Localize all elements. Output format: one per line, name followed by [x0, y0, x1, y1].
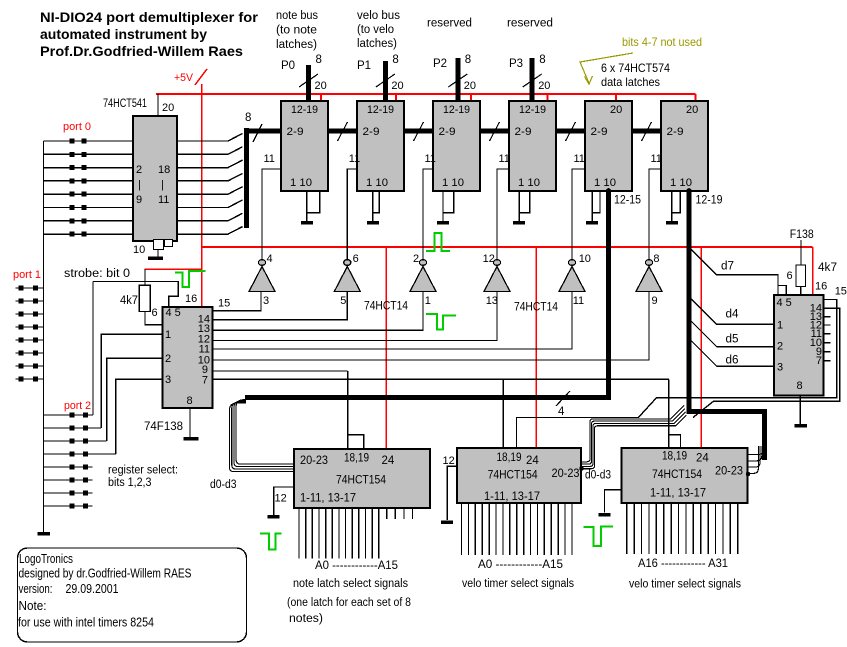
svg-text:4: 4 [267, 253, 273, 265]
resistor R1 4k7 pull-up [144, 269, 146, 285]
thick data bus into latch U2 [245, 129, 282, 134]
svg-text:bits 4-7 not used: bits 4-7 not used [622, 35, 702, 49]
wire: IC9 pin10 to inverter IC8f input [213, 292, 650, 361]
svg-text:11: 11 [425, 153, 436, 165]
svg-text:5: 5 [340, 295, 346, 307]
svg-text:1 10: 1 10 [290, 177, 312, 189]
IC12 output pin [564, 503, 566, 555]
U2 pins 1,10 to ground [307, 191, 320, 213]
svg-text:LogoTronics: LogoTronics [19, 552, 73, 566]
latch U2: 74HCT574 [281, 101, 328, 191]
wire: U5 pin 11 clock to inverter [497, 169, 509, 259]
svg-text:A0 ------------A15: A0 ------------A15 [478, 559, 563, 571]
port 1 contact dots row 7 [19, 364, 24, 369]
wire d7 from 12-19 bus to IC10 pins 4,5 [691, 249, 778, 295]
port 1 wire row 2 [16, 300, 44, 302]
svg-text:2: 2 [777, 341, 783, 353]
wire: bit3 riser to IC9 pin 3 [116, 379, 163, 454]
ground bar under U2 [301, 221, 313, 225]
+5V drop to IC10 pin 16 [812, 247, 814, 295]
port 0 contact dots row 4 [70, 178, 75, 183]
svg-text:11: 11 [499, 153, 510, 165]
svg-text:4 5: 4 5 [166, 307, 181, 319]
svg-text:74HCT541: 74HCT541 [103, 98, 147, 110]
svg-text:20-23: 20-23 [715, 466, 743, 478]
inverter IC8b (74HCT14) [344, 260, 351, 266]
inverter IC8d (74HCT14) [493, 260, 500, 266]
d0-d3 bundle to IC11 pins 20-23 [236, 400, 294, 464]
green strobe pulse waveform 1 [175, 271, 206, 287]
svg-text:16: 16 [185, 293, 197, 305]
IC11 output pin A3 [318, 508, 320, 559]
svg-text:d0-d3: d0-d3 [585, 470, 611, 482]
svg-text:4 5: 4 5 [777, 297, 792, 309]
port 2 wire row 7 [44, 492, 93, 494]
IC10 right pin stub 7 [824, 360, 831, 362]
U7 pins 1,10 to ground [672, 191, 681, 213]
svg-text:6 x 74HCT574: 6 x 74HCT574 [601, 61, 670, 75]
input bus P3 (8 bit) [530, 58, 535, 101]
svg-text:11: 11 [573, 295, 584, 307]
wire: drop to IC13 pins 18,19 [668, 379, 670, 448]
wire: IC10 pin 14 down to d0-d3 corner [693, 308, 840, 417]
wire: IC9 pin12 to inverter IC8d input [213, 292, 498, 341]
IC10 right pin stub 10 [824, 342, 831, 344]
svg-text:velo timer select signals: velo timer select signals [462, 578, 574, 590]
IC11 output pin A2 [311, 508, 313, 559]
latch U6: 74HCT574 [585, 101, 632, 191]
svg-text:3: 3 [165, 374, 171, 386]
IC11 output pin A15 [403, 508, 405, 519]
svg-text:for use with intel timers 8254: for use with intel timers 8254 [18, 616, 154, 630]
wire: IC1 output 8 to bus [177, 227, 243, 235]
port 0 contact dots row 7 [70, 218, 75, 223]
port 2 contact dots row 3 [70, 439, 75, 444]
IC13 output pin [715, 503, 717, 554]
svg-text:24: 24 [526, 455, 539, 467]
wire: U6 pin 11 clock to inverter [572, 169, 585, 259]
port 0 wire row 2 [44, 153, 134, 155]
IC10 right pin stub 11 [824, 333, 831, 335]
decoder IC11: 74HCT154 [294, 449, 430, 508]
IC10 pin 8 ground wire [799, 396, 801, 425]
bus width slash (4) [556, 391, 570, 406]
wire: IC9 pin11 to inverter IC8e input [213, 292, 573, 350]
latch U5: 74HCT574 [509, 101, 556, 191]
svg-text:2-9: 2-9 [667, 126, 684, 138]
svg-text:P0: P0 [281, 60, 295, 72]
port 1 wire row 4 [16, 326, 44, 328]
+5V stub to latch U6 pin 20 [615, 94, 617, 101]
svg-text:2-9: 2-9 [363, 126, 380, 138]
bus bar (8-bit merge) [244, 128, 249, 228]
svg-text:74HCT14: 74HCT14 [514, 302, 559, 314]
IC13 output pin [670, 503, 672, 554]
svg-text:20: 20 [162, 102, 174, 114]
port 0 wire row 5 [44, 193, 134, 195]
svg-text:1: 1 [425, 295, 431, 307]
IC12 output pin [536, 503, 538, 555]
svg-text:8: 8 [392, 54, 398, 66]
+5V stub to latch U5 pin 20 [547, 94, 549, 101]
IC9 pin 8 ground wire [189, 408, 191, 438]
+5V supply slash [195, 69, 207, 85]
port 1 contact dots row 1 [19, 286, 24, 291]
latch U4: 74HCT574 [433, 101, 480, 191]
svg-text:reserved: reserved [507, 18, 553, 30]
svg-text:12-19: 12-19 [291, 104, 318, 116]
bus slash between U2 and U3 [338, 122, 348, 141]
svg-text:P2: P2 [433, 58, 447, 70]
port 1 contact dots row 6 [19, 351, 24, 356]
input bus P1 (8 bit) [383, 61, 388, 101]
IC11 output pin A14 [394, 508, 396, 519]
bus slash between U5 and U6 [566, 122, 576, 141]
IC12 output pin [481, 503, 483, 555]
svg-text:13: 13 [486, 295, 498, 307]
svg-text:(to note: (to note [276, 25, 317, 37]
IC13 output pin [641, 503, 643, 554]
ground bar IC13 pin12 [599, 513, 611, 517]
wire: IC1 output 1 to bus [177, 134, 243, 142]
IC12 output pin [467, 503, 469, 555]
IC11 output pin A11 [371, 508, 373, 559]
olive arrow to latches [580, 53, 633, 83]
svg-text:20-23: 20-23 [552, 468, 580, 480]
svg-text:12: 12 [483, 253, 495, 265]
svg-text:11: 11 [349, 153, 360, 165]
svg-text:12-15: 12-15 [614, 195, 641, 207]
svg-text:2: 2 [136, 164, 142, 176]
wire: U4 pin 11 clock to inverter [423, 169, 433, 259]
bus width slash (8) [253, 124, 262, 142]
svg-text:12-19: 12-19 [367, 104, 394, 116]
svg-text:4k7: 4k7 [818, 262, 837, 274]
svg-text:2-9: 2-9 [591, 126, 608, 138]
thick bus 12-15 from U6 [245, 190, 609, 398]
IC11 output pin A10 [365, 508, 367, 559]
junction dot at IC13 pins 20-23 [746, 472, 750, 476]
svg-text:12-19: 12-19 [519, 104, 546, 116]
IC11 output pin A5 [331, 508, 333, 559]
svg-text:20: 20 [315, 80, 327, 92]
IC12 output pin [557, 503, 559, 555]
svg-text:3: 3 [777, 362, 783, 374]
svg-text:1 10: 1 10 [442, 177, 464, 189]
ground bar under IC10 [795, 424, 808, 428]
svg-text:1 10: 1 10 [518, 177, 540, 189]
IC13 output pin [655, 503, 657, 554]
+5V drop to IC12 pin 24 [535, 247, 537, 448]
port 2 contact dots row 6 [70, 478, 75, 483]
svg-text:8: 8 [465, 54, 471, 66]
wire: IC13 enable pin step [669, 435, 681, 448]
+5V rail y=247 [202, 246, 813, 248]
+5V stub to latch U3 pin 20 [395, 94, 397, 101]
port 1 contact dots row 5 [19, 338, 24, 343]
svg-text:7: 7 [816, 355, 822, 367]
IC13 output pin [663, 503, 665, 554]
svg-text:register select:: register select: [108, 465, 178, 477]
wire: drop to IC12 pin 18 [502, 379, 504, 448]
ground bar IC11 pin12 [268, 515, 280, 519]
svg-text:designed by dr.Godfried-Willem: designed by dr.Godfried-Willem RAES [19, 567, 192, 581]
IC10 right pin stub 14 [824, 307, 831, 309]
svg-text:12-19: 12-19 [696, 195, 723, 207]
ground bar under IC9 [184, 437, 199, 441]
ground bar under U4 [437, 221, 449, 225]
svg-text:12: 12 [443, 455, 455, 467]
svg-text:24: 24 [696, 453, 709, 465]
svg-text:1 10: 1 10 [670, 177, 692, 189]
wire: IC9 pin14 to inverter IC8b input [213, 292, 348, 320]
IC11 output pin A12 [378, 508, 380, 559]
svg-text:15: 15 [835, 286, 847, 298]
port 2 contact dots row 7 [70, 491, 75, 496]
wire: U7 pin 11 clock to inverter [649, 169, 661, 259]
+5V stub to latch U2 pin 20 [320, 94, 322, 101]
wire: IC11 enable pin step [348, 435, 364, 449]
svg-text:d7: d7 [721, 261, 734, 273]
ground bar under U6 [586, 221, 598, 225]
svg-text:bits 1,2,3: bits 1,2,3 [108, 477, 152, 489]
svg-text:port 2: port 2 [64, 400, 91, 412]
wire: bit1 riser to IC9 pin 1 [101, 334, 162, 428]
svg-text:74HCT14: 74HCT14 [364, 301, 409, 313]
port 2 wire row 3 [44, 440, 107, 442]
svg-text:16: 16 [815, 281, 827, 293]
svg-text:Prof.Dr.Godfried-Willem Raes: Prof.Dr.Godfried-Willem Raes [40, 43, 243, 59]
IC13 output pin [692, 503, 694, 554]
port 2 wire row 5 [44, 466, 93, 468]
svg-text:(to velo: (to velo [357, 24, 394, 36]
inverter IC8c (74HCT14) [419, 260, 426, 266]
port 1 wire row 3 [16, 313, 44, 315]
port 1 wire row 7 [16, 365, 44, 367]
svg-text:d6: d6 [726, 355, 739, 367]
svg-text:4: 4 [558, 406, 565, 418]
svg-text:11: 11 [158, 194, 169, 206]
svg-text:8: 8 [539, 54, 545, 66]
IC12 pin 12 ground wire [447, 466, 457, 520]
port 0 wire row 7 [44, 220, 134, 222]
junction dot on 12-15 bus at U6 pin outputs [606, 188, 612, 194]
svg-text:2-9: 2-9 [515, 126, 532, 138]
bus slash P2 [448, 74, 467, 87]
svg-text:2: 2 [165, 353, 171, 365]
wire: bit2 riser to IC9 pin 2 [107, 358, 163, 441]
wire d6 [691, 341, 774, 367]
U3 pins 1,10 to ground [373, 191, 380, 213]
data bus segment U2 to U3 [328, 129, 357, 134]
IC12 output pin [523, 503, 525, 555]
IC12 output pin [461, 503, 463, 555]
port 1 wire row 6 [16, 352, 44, 354]
port 2 contact dots row 5 [70, 465, 75, 470]
svg-text:1-11, 13-17: 1-11, 13-17 [484, 491, 540, 503]
wire d4 [691, 299, 774, 325]
wire: IC9 pin15 to inverter IC8a input [213, 292, 262, 311]
bus slash P0 [299, 74, 318, 87]
data bus segment U6 to U7 [632, 129, 661, 134]
svg-text:1 10: 1 10 [366, 177, 388, 189]
svg-text:6: 6 [152, 307, 158, 319]
IC1 pin 20 wire [157, 94, 159, 116]
latch U3: 74HCT574 [357, 101, 404, 191]
svg-text:11: 11 [651, 153, 662, 165]
svg-text:6: 6 [353, 253, 359, 265]
port 0 contact dots row 3 [70, 165, 75, 170]
IC12 output pin [488, 503, 490, 555]
svg-text:notes): notes) [289, 613, 323, 625]
svg-text:8: 8 [245, 112, 251, 124]
buffer IC1: 74HCT541 [133, 116, 177, 241]
bus slash between U4 and U5 [490, 122, 500, 141]
IC11 output pin A6 [338, 508, 340, 559]
svg-text:11: 11 [574, 153, 585, 165]
IC11 output pin A9 [358, 508, 360, 559]
wire d5 [691, 321, 774, 347]
svg-text:automated instrument by: automated instrument by [40, 26, 207, 42]
port 1 wire row 5 [16, 339, 44, 341]
green select pulse waveform 5 [583, 527, 613, 547]
port 1 contact dots row 3 [19, 312, 24, 317]
IC12 output pin [550, 503, 552, 555]
wire: IC9 pin13 to inverter IC8c input [213, 292, 424, 331]
port 2 wire row 1 [44, 414, 94, 416]
svg-text:6: 6 [787, 270, 793, 282]
port 1 wire row 8 [16, 378, 44, 380]
svg-text:8: 8 [316, 54, 322, 66]
svg-text:port 0: port 0 [63, 121, 91, 133]
wire: IC12 pin 19 jog to IC10 pin 15 [517, 300, 837, 449]
latch U7: 74HCT574 [661, 101, 708, 191]
svg-text:A16 ------------ A31: A16 ------------ A31 [638, 558, 728, 570]
svg-text:strobe: bit 0: strobe: bit 0 [64, 268, 130, 280]
thick bus 12-19 from U7 [689, 190, 765, 460]
svg-text:data latches: data latches [601, 75, 660, 89]
ground bar under IC1 [148, 257, 163, 261]
wire: IC1 output 3 to bus [177, 160, 243, 168]
resistor R2 4k7 [796, 265, 806, 287]
svg-text:port 1: port 1 [13, 269, 41, 281]
svg-text:12: 12 [275, 493, 287, 505]
decoder IC13: 74HCT154 [622, 448, 748, 503]
wire: drop to IC11 pins 18,19 [347, 371, 349, 449]
IC11 output pin A7 [345, 508, 347, 559]
port 0 wire row 4 [44, 180, 134, 182]
wire: IC1 output 4 to bus [177, 173, 243, 181]
input bus P2 (8 bit) [455, 58, 460, 101]
IC11 output pin A16 [412, 508, 414, 519]
svg-text:+5V: +5V [174, 72, 194, 84]
svg-text:74F138: 74F138 [144, 419, 183, 433]
svg-text:2-9: 2-9 [287, 126, 304, 138]
green select pulse waveform 4 [260, 533, 282, 549]
svg-text:velo timer select signals: velo timer select signals [629, 579, 741, 591]
port 1 wire row 1 [16, 287, 44, 289]
inverter IC8e (74HCT14) [568, 260, 575, 266]
svg-text:74HCT154: 74HCT154 [336, 475, 387, 487]
port 2 contact dots row 8 [70, 504, 75, 509]
data bus segment U4 to U5 [480, 129, 509, 134]
bus slash between U3 and U4 [414, 122, 424, 141]
port 1 contact dots row 2 [19, 299, 24, 304]
ground bar under U5 [513, 221, 525, 225]
port 0 contact dots row 6 [70, 205, 75, 210]
port 1 contact dots row 8 [19, 377, 24, 382]
ground bar under U3 [367, 221, 379, 225]
IC12 output pin [502, 503, 504, 555]
IC13 output pin [700, 503, 702, 554]
green clock pulse waveform 2 [426, 233, 450, 251]
wire: strobe riser (bit 0) [92, 282, 94, 416]
IC12 output pin [530, 503, 532, 555]
svg-text:18: 18 [158, 164, 170, 176]
svg-text:note latch select signals: note latch select signals [293, 578, 408, 590]
svg-text:(one latch for each set of 8: (one latch for each set of 8 [287, 597, 411, 609]
IC1 bottom pin boxes [154, 240, 164, 250]
green strobe pulse waveform 3 [426, 314, 456, 329]
IC12 output pin [571, 503, 573, 555]
svg-text:29.09.2001: 29.09.2001 [66, 582, 119, 596]
wire: strobe to IC9 pins 4,5 [93, 282, 178, 308]
IC12 output pin [543, 503, 545, 555]
svg-text:d4: d4 [726, 309, 740, 321]
U4 pins 1,10 to ground [443, 191, 454, 213]
svg-text:8: 8 [653, 253, 659, 265]
IC13 pin 12 ground wire [605, 490, 622, 513]
port 0 wire row 3 [44, 167, 134, 169]
svg-text:20: 20 [610, 104, 622, 116]
port 2 wire row 6 [44, 479, 93, 481]
IC12 output pin [509, 503, 511, 555]
port 2 contact dots row 1 [70, 413, 75, 418]
svg-text:|: | [138, 179, 141, 191]
+5V stub to latch U4 pin 20 [470, 94, 472, 101]
port 1 contact dots row 4 [19, 325, 24, 330]
IC10 right pin stub 13 [824, 316, 831, 318]
junction dot on 12-19 bus at U7 pin outputs [686, 188, 692, 194]
svg-text:3: 3 [263, 295, 269, 307]
IC13 output pin [722, 503, 724, 554]
svg-text:note bus: note bus [276, 10, 318, 22]
IC10 right pin stub 12 [824, 324, 831, 326]
data bus segment U3 to U4 [404, 129, 433, 134]
port 2 wire row 2 [44, 427, 102, 429]
U6 pins 1,10 to ground [592, 191, 600, 213]
d0-d3 bundle to IC12 pins 20-23 [581, 405, 684, 462]
port 0 contact dots row 5 [70, 192, 75, 197]
svg-text:20: 20 [538, 80, 550, 92]
svg-text:74HCT154: 74HCT154 [488, 470, 539, 482]
decoder IC10: F138 [774, 295, 824, 396]
port 2 contact dots row 4 [70, 452, 75, 457]
svg-text:latches): latches) [276, 39, 317, 51]
IC13 output pin [648, 503, 650, 554]
svg-text:18,19: 18,19 [344, 453, 369, 465]
svg-text:Note:: Note: [19, 599, 47, 613]
inverter IC8a (74HCT14) [258, 260, 265, 266]
IC11 output pin A4 [325, 508, 327, 559]
wire: IC1 output 5 to bus [177, 187, 243, 195]
port 0 wire row 6 [44, 207, 134, 209]
svg-text:10: 10 [133, 244, 145, 256]
IC1 ground stem [157, 250, 159, 258]
port 2 wire row 8 [44, 505, 93, 507]
IC11 pin 12 ground wire [274, 487, 294, 515]
svg-text:1 10: 1 10 [594, 177, 616, 189]
